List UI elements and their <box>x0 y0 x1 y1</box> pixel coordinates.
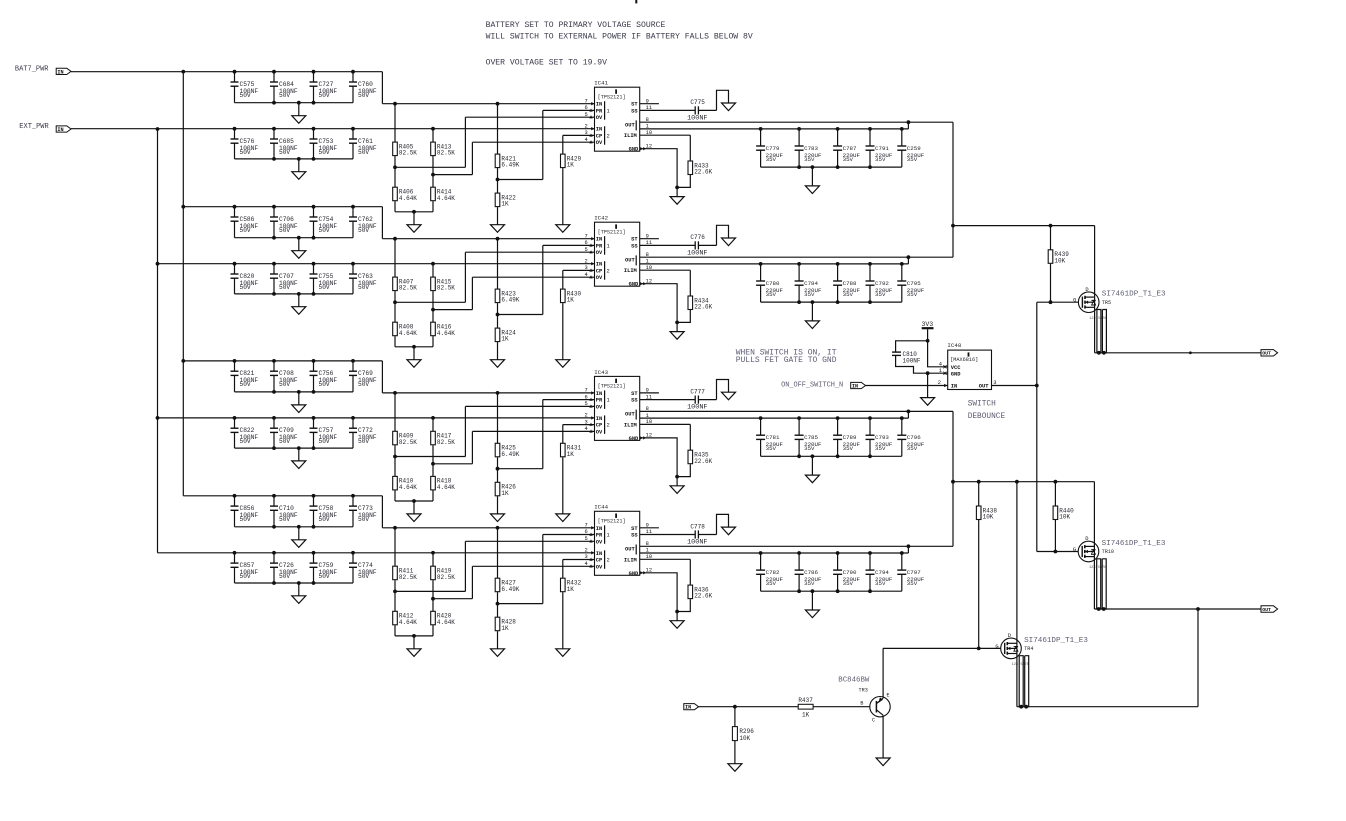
wire ST stub IC42 pin9 <box>640 238 659 240</box>
svg-text:50V: 50V <box>319 284 330 291</box>
junction obank cap1 row1 <box>759 127 763 131</box>
wire ST stub IC41 pin9 <box>640 103 659 105</box>
resistor R437 <box>798 697 813 719</box>
svg-text:4.64K: 4.64K <box>399 330 417 337</box>
svg-text:35V: 35V <box>843 580 854 587</box>
svg-text:4.64K: 4.64K <box>399 195 417 202</box>
svg-text:C788: C788 <box>843 280 857 287</box>
wire OUT pin8 IC41 <box>640 121 909 123</box>
svg-text:4.64K: 4.64K <box>399 484 417 491</box>
wire hook row1 <box>717 90 729 110</box>
wire divider ground rail row1 <box>395 211 433 213</box>
wire TR3 collector <box>882 715 884 758</box>
svg-text:BAT7_PWR: BAT7_PWR <box>15 65 49 73</box>
capacitor C763 <box>349 264 377 294</box>
wire EXT rail row3 to pin2 IC43 <box>158 417 595 419</box>
svg-text:35V: 35V <box>875 156 886 163</box>
svg-text:50V: 50V <box>358 381 369 388</box>
wire R436 bottom <box>677 599 690 611</box>
resistor R420 <box>431 611 456 626</box>
pin numbers IC48 <box>938 361 997 387</box>
wire C778 to hook <box>698 534 716 536</box>
junction bankA gnd3 row3 <box>312 390 316 394</box>
svg-text:3V3: 3V3 <box>922 321 934 328</box>
svg-text:35V: 35V <box>843 291 854 298</box>
wire pin4 IC41 vert <box>471 142 473 174</box>
wire BAT to pin7 IC43 <box>382 392 594 394</box>
transistor TR10 SI7461DP_T1_E3 <box>1073 536 1166 570</box>
wire IC48 gnd stem <box>927 373 929 397</box>
wire pin4 IC44 to divider <box>433 598 472 600</box>
resistor R423 <box>495 289 520 304</box>
junction obank gnd3 row3 <box>836 454 840 458</box>
wire lower drain rail <box>953 481 1094 483</box>
svg-text:SS: SS <box>631 533 638 539</box>
svg-text:IC48: IC48 <box>947 342 961 349</box>
svg-text:35V: 35V <box>766 156 777 163</box>
svg-text:22.6K: 22.6K <box>694 593 712 600</box>
svg-text:C787: C787 <box>843 145 857 152</box>
wire pin4 IC44 horiz <box>472 565 594 567</box>
wire pin6 IC42 vert <box>542 245 544 314</box>
svg-text:5: 5 <box>585 112 588 118</box>
svg-text:C761: C761 <box>358 138 373 145</box>
svg-text:PR: PR <box>596 533 603 539</box>
resistor R416 <box>431 322 456 337</box>
junction obank cap1 row3 <box>759 416 763 420</box>
junction R421 top <box>496 102 500 106</box>
port BAT7_PWR IN <box>56 68 71 75</box>
junction bankB cap4 row3 <box>351 416 355 420</box>
svg-text:35V: 35V <box>875 291 886 298</box>
junction obank gnd1 row3 <box>797 454 801 458</box>
svg-text:ILIM: ILIM <box>624 557 637 563</box>
ground hook row1 <box>722 103 736 111</box>
wire EXT distribution vertical <box>157 129 159 553</box>
svg-text:C706: C706 <box>279 216 294 223</box>
svg-text:[MAX6816]: [MAX6816] <box>950 357 978 363</box>
pin numbers IC44 <box>585 523 653 575</box>
junction bankA gnd3 row4 <box>312 525 316 529</box>
ground IC44 <box>670 621 684 629</box>
ground bankA row2 <box>292 251 306 259</box>
wire R437 to base <box>813 706 870 708</box>
junction bankA gnd3 row1 <box>312 101 316 105</box>
junction gate bus / IC48 OUT <box>1035 384 1039 388</box>
svg-text:10K: 10K <box>1054 257 1065 264</box>
capacitor C787 <box>833 129 860 167</box>
wire pin5 IC44 vert <box>464 541 466 591</box>
svg-text:OUT: OUT <box>625 412 635 418</box>
wire ILIM IC41 <box>640 134 691 136</box>
capacitor C821 <box>231 361 259 392</box>
capacitor C810 <box>892 351 921 364</box>
junction bankB cap2 row4 <box>272 551 276 555</box>
resistor R424 <box>495 328 516 343</box>
wire R438 top <box>978 482 980 506</box>
junction R427 top <box>496 526 500 530</box>
junction BAT7/bank1 <box>181 70 185 74</box>
capacitor C709 <box>270 418 298 448</box>
wire obank ground rail row3 <box>761 455 902 457</box>
svg-text:2: 2 <box>585 123 588 129</box>
wire pin4 IC44 vert <box>471 566 473 598</box>
wire bankB ground stem row3 <box>298 448 300 461</box>
wire C777 to hook <box>698 399 716 401</box>
svg-text:5: 5 <box>585 401 588 407</box>
wire R422 bottom <box>497 207 499 225</box>
svg-text:OVER VOLTAGE SET TO 19.9V: OVER VOLTAGE SET TO 19.9V <box>486 59 608 68</box>
junction EXT/bank6 <box>156 416 160 420</box>
svg-text:C684: C684 <box>279 81 294 88</box>
wire R411/R412 <box>394 580 396 611</box>
svg-text:ILIM: ILIM <box>624 133 637 139</box>
svg-text:50V: 50V <box>240 573 251 580</box>
svg-text:100NF: 100NF <box>903 358 921 365</box>
svg-text:C259: C259 <box>907 145 921 152</box>
wire pin4 IC41 to divider <box>433 174 472 176</box>
resistor R415 <box>431 277 456 292</box>
wire bankB ground stem row4 <box>298 583 300 596</box>
wire R296 top <box>734 707 736 727</box>
junction R411 top <box>393 526 397 530</box>
junction obank cap3 row4 <box>836 551 840 555</box>
junction divider gnd row1 <box>412 210 416 214</box>
svg-text:35V: 35V <box>907 580 918 587</box>
svg-text:GND: GND <box>629 282 639 288</box>
ground IC41 <box>670 197 684 205</box>
wire SS IC42 pin11 <box>640 244 696 246</box>
svg-text:IN: IN <box>596 262 602 268</box>
svg-text:OUT: OUT <box>625 122 635 128</box>
wire pin6 IC42 to divider <box>498 314 543 316</box>
svg-text:SS: SS <box>631 398 638 404</box>
capacitor C857 <box>231 553 259 583</box>
wire pin5 IC43 to divider <box>395 456 465 458</box>
svg-text:3: 3 <box>585 265 588 271</box>
wire OUT pin8 IC42 <box>640 256 909 258</box>
svg-text:PR: PR <box>596 243 603 249</box>
svg-text:1K: 1K <box>802 712 810 719</box>
junction bankA gnd2 row4 <box>297 525 301 529</box>
pin numbers IC41 <box>585 98 653 150</box>
op-amp IC44 [TPS2121] <box>594 504 640 577</box>
svg-text:IN: IN <box>596 551 602 557</box>
wire R419/R420 <box>432 580 434 611</box>
svg-text:10K: 10K <box>739 735 750 742</box>
svg-text:BATTERY SET TO PRIMARY VOLTAGE: BATTERY SET TO PRIMARY VOLTAGE SOURCE <box>486 21 666 30</box>
junction bankA gnd2 row3 <box>297 390 301 394</box>
junction obank gnd3 row2 <box>836 300 840 304</box>
svg-text:4: 4 <box>585 561 588 567</box>
wire pin3 IC44 <box>563 559 595 561</box>
junction bankB gnd3 row3 <box>312 446 316 450</box>
junction bankA cap2 row3 <box>272 359 276 363</box>
junction bankA gnd1 row4 <box>272 525 276 529</box>
capacitor C777 <box>687 388 707 411</box>
junction OUT jog IC44 <box>907 544 911 548</box>
junction obank gnd1 row2 <box>797 300 801 304</box>
wire R434 bottom <box>677 310 690 322</box>
ground hook row3 <box>722 392 736 400</box>
svg-text:IN: IN <box>57 69 63 75</box>
ground bankB row1 <box>292 172 306 180</box>
junction obank cap1 row2 <box>759 262 763 266</box>
wire R414 bottom <box>432 201 434 212</box>
svg-text:4: 4 <box>585 272 588 278</box>
svg-text:100NF: 100NF <box>687 539 707 547</box>
transistor TR4 SI7461DP_T1_E3 <box>995 633 1088 667</box>
junction bankA cap2 row1 <box>272 70 276 74</box>
wire R416 bottom <box>432 336 434 347</box>
wire obank ground stem row3 <box>811 456 813 475</box>
svg-text:OV: OV <box>596 404 603 410</box>
svg-text:SS: SS <box>631 243 638 249</box>
op-amp IC48 [MAX6816] <box>947 342 991 390</box>
junction OUT jog IC43 <box>907 410 911 414</box>
wire R406 bottom <box>394 201 396 212</box>
svg-text:C780: C780 <box>766 280 780 287</box>
svg-text:D: D <box>1008 633 1011 639</box>
svg-text:50V: 50V <box>319 381 330 388</box>
wire R421/R422 <box>497 168 499 193</box>
wire bankB ground rail row3 <box>235 447 354 449</box>
wire R425/R426 <box>497 457 499 482</box>
junction R438/gate <box>977 647 981 651</box>
svg-text:SI7461DP_T1_E3: SI7461DP_T1_E3 <box>1102 291 1166 299</box>
wire gate bus vertical <box>1036 302 1038 551</box>
junction bankA gnd2 row1 <box>297 101 301 105</box>
svg-text:50V: 50V <box>319 573 330 580</box>
svg-text:50V: 50V <box>319 516 330 523</box>
junction bankB gnd2 row1 <box>297 157 301 161</box>
svg-text:IN: IN <box>951 384 957 390</box>
capacitor C822 <box>231 418 259 448</box>
svg-text:2: 2 <box>585 413 588 419</box>
svg-text:50V: 50V <box>240 438 251 445</box>
junction bankB cap1 row1 <box>233 127 237 131</box>
junction bankA cap4 row1 <box>351 70 355 74</box>
wire pin6 IC43 vert <box>542 400 544 469</box>
wire obank ground stem row2 <box>811 302 813 321</box>
junction bankA cap1 row3 <box>233 359 237 363</box>
svg-text:1K: 1K <box>501 625 509 632</box>
junction obank gnd2 row1 <box>811 165 815 169</box>
svg-text:IN: IN <box>596 127 602 133</box>
svg-text:1: 1 <box>607 243 610 249</box>
svg-text:10K: 10K <box>1059 514 1070 521</box>
resistor R439 <box>1048 250 1069 265</box>
junction bankB cap1 row3 <box>233 416 237 420</box>
wire R438 bottom <box>978 520 980 648</box>
port OUT2 <box>1261 606 1278 613</box>
svg-text:SI7461DP_T1_E3: SI7461DP_T1_E3 <box>1024 637 1088 645</box>
wire BAT to pin7 IC44 <box>382 527 594 529</box>
junction obank gnd4 row3 <box>868 454 872 458</box>
junction bankB cap4 row1 <box>351 127 355 131</box>
svg-text:50V: 50V <box>358 149 369 156</box>
svg-text:82.5K: 82.5K <box>399 439 417 446</box>
wire pin6 IC43 to divider <box>498 468 543 470</box>
junction obank cap1 row4 <box>759 551 763 555</box>
resistor R412 <box>393 611 418 626</box>
wire obank ground rail row1 <box>761 166 902 168</box>
junction obank cap4 row2 <box>868 262 872 266</box>
wire R426 bottom <box>497 496 499 514</box>
svg-text:50V: 50V <box>279 284 290 291</box>
wire R432 bottom <box>562 592 564 649</box>
svg-text:50V: 50V <box>279 438 290 445</box>
svg-text:OUT: OUT <box>1262 607 1271 613</box>
svg-text:50V: 50V <box>240 227 251 234</box>
resistor R427 <box>495 578 520 593</box>
svg-text:SS: SS <box>631 108 638 114</box>
capacitor C708 <box>270 361 298 392</box>
wire BAT to pin7 IC42 <box>382 238 594 240</box>
wire pin3 IC43 <box>563 424 595 426</box>
junction bankB cap4 row2 <box>351 262 355 266</box>
svg-text:ST: ST <box>631 237 638 243</box>
junction bankA cap2 row2 <box>272 205 276 209</box>
wire bankA ground stem row4 <box>298 527 300 540</box>
junction EXT/rail <box>156 127 160 131</box>
junction TR5 source1 <box>1097 351 1101 355</box>
svg-text:OV: OV <box>596 250 603 256</box>
junction PR1 divider row2 <box>496 313 500 317</box>
svg-text:TR4: TR4 <box>1024 646 1033 652</box>
junction OV1 divider row2 <box>393 300 397 304</box>
resistor R440 <box>1053 506 1074 521</box>
svg-text:TR10: TR10 <box>1102 549 1114 555</box>
wire pin3 IC41 <box>563 134 595 136</box>
annotation text line 2 <box>486 33 753 42</box>
svg-text:1: 1 <box>607 398 610 404</box>
junction obank gnd4 row4 <box>868 589 872 593</box>
svg-text:C789: C789 <box>843 434 857 441</box>
svg-text:6.49K: 6.49K <box>501 162 519 169</box>
wire pin6 IC44 horiz <box>543 534 595 536</box>
ground R424 <box>491 360 505 368</box>
svg-text:C757: C757 <box>319 427 334 434</box>
wire pin5 IC41 vert <box>464 117 466 167</box>
wire R421 top <box>497 104 499 154</box>
junction bankB gnd2 row4 <box>297 581 301 585</box>
svg-text:50V: 50V <box>358 92 369 99</box>
junction bankA gnd1 row2 <box>272 236 276 240</box>
junction obank gnd1 row4 <box>797 589 801 593</box>
wire divider gnd stem row3 <box>413 501 415 514</box>
port EXT_PWR IN <box>56 126 71 133</box>
svg-text:C792: C792 <box>875 280 889 287</box>
junction obank cap2 row2 <box>797 262 801 266</box>
wire R411 top <box>394 528 396 566</box>
wire TR4 gate <box>883 647 1001 649</box>
svg-text:82.5K: 82.5K <box>399 150 417 157</box>
annotation DEBOUNCE <box>968 413 1006 421</box>
svg-text:[TPS2121]: [TPS2121] <box>598 94 626 100</box>
svg-text:C726: C726 <box>279 562 294 569</box>
svg-text:50V: 50V <box>358 438 369 445</box>
capacitor C707 <box>270 264 298 294</box>
wire IC48 OUT <box>992 385 1037 387</box>
wire OUT to vertical IC41 <box>908 121 953 123</box>
svg-text:IN: IN <box>852 383 858 389</box>
svg-text:IN: IN <box>596 416 602 422</box>
capacitor C784 <box>795 264 822 302</box>
junction R438 top <box>977 480 981 484</box>
capacitor C790 <box>833 553 860 591</box>
wire R423 top <box>497 239 499 289</box>
resistor R432 <box>561 578 582 593</box>
svg-text:1K: 1K <box>501 490 509 497</box>
wire R431 bottom <box>562 457 564 514</box>
svg-text:TR5: TR5 <box>1102 300 1111 306</box>
capacitor C785 <box>795 418 822 456</box>
svg-text:C784: C784 <box>804 280 818 287</box>
junction OV1 divider row1 <box>393 165 397 169</box>
svg-text:IC43: IC43 <box>594 369 608 376</box>
junction bankA cap1 row1 <box>233 70 237 74</box>
junction obank gnd4 row1 <box>868 165 872 169</box>
wire R410 bottom <box>394 490 396 501</box>
wire R430 bottom <box>562 303 564 360</box>
wire pin5 IC42 vert <box>464 252 466 302</box>
resistor R414 <box>431 187 456 202</box>
capacitor C757 <box>310 418 338 448</box>
svg-text:1K: 1K <box>567 451 575 458</box>
junction OV2 divider row2 <box>431 308 435 312</box>
resistor R434 <box>688 296 713 311</box>
junction GND/R433 <box>675 186 679 190</box>
wire EXT rail row1 to pin2 IC41 <box>71 128 595 130</box>
ground divider row2 <box>407 360 421 368</box>
svg-text:35V: 35V <box>804 291 815 298</box>
svg-text:50V: 50V <box>279 149 290 156</box>
svg-text:C753: C753 <box>319 138 334 145</box>
svg-text:2: 2 <box>585 548 588 554</box>
svg-text:50V: 50V <box>240 381 251 388</box>
capacitor C782 <box>756 553 783 591</box>
pin numbers IC43 <box>585 388 653 440</box>
wire R429 top <box>562 135 564 154</box>
resistor R430 <box>561 289 582 304</box>
ground IC43 <box>670 486 684 494</box>
wire bankA ground rail row4 <box>235 526 354 528</box>
wire R440 top <box>1054 482 1056 506</box>
junction bankB cap3 row2 <box>312 262 316 266</box>
wire C810 top <box>896 341 928 352</box>
resistor R409 <box>393 431 418 446</box>
svg-text:R296: R296 <box>739 728 754 735</box>
svg-text:82.5K: 82.5K <box>437 439 455 446</box>
wire EXT rail row2 to pin2 IC42 <box>158 263 595 265</box>
svg-text:C758: C758 <box>319 505 334 512</box>
ground divider row1 <box>407 225 421 233</box>
junction obank cap2 row1 <box>797 127 801 131</box>
wire OUT jog IC44 <box>907 546 909 553</box>
capacitor C575 <box>231 72 259 103</box>
resistor R425 <box>495 443 520 458</box>
svg-text:1: 1 <box>607 108 610 114</box>
svg-text:1K: 1K <box>567 297 575 304</box>
ground divider row4 <box>407 649 421 657</box>
capacitor C758 <box>310 496 338 527</box>
wire divider ground rail row4 <box>395 635 433 637</box>
capacitor C783 <box>795 129 822 167</box>
ground IC42 <box>670 332 684 340</box>
svg-text:PR: PR <box>596 398 603 404</box>
wire bankA ground rail row2 <box>235 237 354 239</box>
